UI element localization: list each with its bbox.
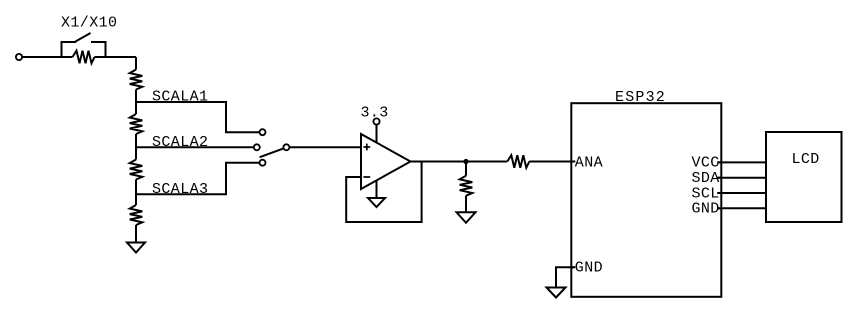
wire R1 to divider top (95, 56, 137, 58)
pin stub GND left (571, 266, 575, 268)
wire R4 to node SCALA3 (135, 180, 137, 206)
label X1/X10 (61, 15, 117, 32)
wire VCC to LCD (717, 161, 766, 163)
resistor R2 (130, 70, 143, 90)
switch S2 contact 3 (260, 160, 266, 166)
resistor R5 (130, 205, 143, 225)
input terminal J1 (16, 54, 22, 60)
wire divider top (135, 57, 137, 70)
svg-text:SCALA2: SCALA2 (152, 134, 208, 151)
pin GND (left) (575, 260, 603, 277)
wire R3 to node SCALA2 (135, 134, 137, 160)
svg-text:GND: GND (692, 201, 720, 218)
wire R5 to ground (135, 225, 137, 243)
wire input to R1 (22, 56, 72, 58)
pin VCC (692, 155, 720, 172)
wire op-amp V- pin to ground (376, 180, 378, 198)
wire 3.3 supply to op-amp (376, 125, 378, 143)
wire R2 to node SCALA1 (135, 90, 137, 115)
wire ESP32 GND to ground (556, 267, 575, 287)
ground (R6) (457, 212, 476, 223)
pin SDA (692, 170, 720, 187)
pin SCL (692, 185, 720, 202)
LCD U3 (766, 132, 842, 222)
svg-text:LCD: LCD (792, 151, 820, 168)
node SCALA3 wire to contact (136, 163, 259, 195)
switch S2 contact 2 (254, 144, 260, 150)
svg-text:ANA: ANA (575, 155, 603, 172)
label LCD (792, 151, 820, 168)
node SCALA1 wire to contact (136, 102, 259, 132)
svg-text:GND: GND (575, 260, 603, 277)
wire op-amp output to ANA net (411, 161, 508, 163)
pin GND (right) (692, 201, 720, 218)
resistor R4 (130, 160, 143, 180)
svg-text:X1/X10: X1/X10 (61, 15, 117, 32)
wire SDA to LCD (717, 177, 766, 179)
ESP32 U2 (571, 103, 721, 297)
switch S2 pivot (283, 144, 289, 150)
svg-text:ESP32: ESP32 (615, 89, 666, 106)
junction node (463, 159, 468, 164)
resistor R6 (to ground) (460, 176, 473, 196)
svg-text:3.3: 3.3 (361, 105, 389, 122)
node SCALA2 wire to contact (136, 146, 254, 148)
wire R7 to ESP32 ANA pin (529, 161, 571, 163)
label 3.3 (361, 105, 389, 122)
label ESP32 (615, 89, 666, 106)
ground (divider) (127, 243, 145, 253)
switch S2 contact 1 (260, 129, 266, 135)
resistor R1 (series input) (73, 51, 95, 64)
svg-text:SCALA1: SCALA1 (152, 89, 208, 106)
wire R6 to ground (465, 196, 467, 213)
ground (op-amp) (368, 198, 385, 207)
label SCALA3 (152, 181, 208, 198)
wire SCL to LCD (717, 192, 766, 194)
switch S1 X1/X10 bypass (62, 33, 106, 57)
svg-text:SCALA3: SCALA3 (152, 181, 208, 198)
supply terminal 3.3 (373, 118, 379, 124)
label SCALA2 (152, 134, 208, 151)
ground (ESP32) (547, 288, 566, 298)
resistor R7 (series to ANA) (507, 155, 529, 168)
wire junction to R6 (465, 162, 467, 176)
label SCALA1 (152, 89, 208, 106)
resistor R3 (130, 114, 143, 134)
pin stubs right pins (717, 162, 721, 208)
op-amp U1 (361, 134, 411, 189)
pin stub ANA (571, 161, 575, 163)
switch S2 blade (260, 148, 284, 157)
wire GND to LCD (717, 207, 766, 209)
pin ANA (575, 155, 603, 172)
feedback wire output to - input (346, 162, 421, 223)
wire S2 pivot to op-amp + input (290, 146, 362, 148)
